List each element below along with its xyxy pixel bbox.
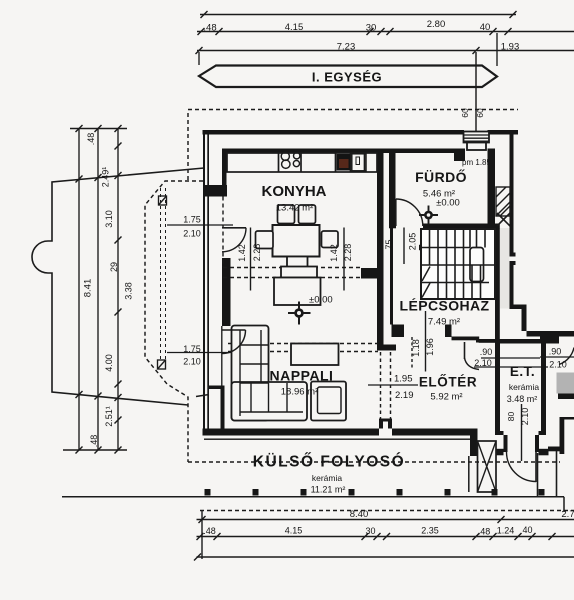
svg-text:.48: .48	[86, 133, 96, 146]
shaft gray strip	[500, 228, 510, 309]
outer wall left double line	[203, 130, 209, 436]
corridor bottom corner	[563, 497, 565, 512]
stair opening dim dashed	[411, 337, 413, 370]
east outer wall bar	[510, 134, 516, 305]
bottom dashed line	[200, 510, 574, 512]
kitchen east wall	[377, 149, 396, 351]
svg-text:2.10: 2.10	[520, 408, 530, 426]
svg-text:2.28: 2.28	[343, 244, 353, 262]
bottom dimension line 2	[197, 533, 574, 540]
svg-text:4.15: 4.15	[285, 22, 304, 33]
corridor ramp box with X	[478, 441, 497, 492]
svg-text:.48: .48	[478, 527, 491, 537]
svg-text:60: 60	[475, 108, 485, 118]
svg-text:2.49¹: 2.49¹	[101, 167, 111, 188]
svg-text:kerámia: kerámia	[509, 382, 540, 392]
svg-text:1.93: 1.93	[501, 42, 520, 53]
svg-text:kerámia: kerámia	[312, 473, 343, 483]
nappali door leaf	[222, 329, 246, 331]
svg-text:2.51¹: 2.51¹	[104, 406, 114, 427]
corridor dashed line	[188, 461, 560, 463]
corridor posts	[205, 489, 545, 496]
staircase treads lower	[438, 265, 481, 299]
left dim top terminator line	[70, 125, 127, 132]
svg-text:.48: .48	[89, 435, 99, 448]
south wall of nappali	[203, 429, 471, 436]
armchair	[311, 382, 346, 421]
top dimension line 1	[200, 11, 517, 18]
kitchen dashed overhang horizontals	[223, 268, 361, 278]
svg-text:2.35: 2.35	[421, 526, 439, 536]
stair east wall	[495, 228, 500, 341]
coffee table	[291, 344, 339, 366]
svg-text:7.49 m²: 7.49 m²	[428, 317, 460, 328]
gray block bottom wall	[558, 394, 574, 400]
nappali-eloter opening dashed jambs	[381, 352, 391, 419]
banner witness lines	[199, 33, 497, 66]
kitchen chair right	[322, 231, 339, 248]
svg-text:2.19: 2.19	[395, 390, 414, 401]
sofa L vertical part	[232, 326, 269, 421]
bottom dimension line 1	[197, 516, 574, 523]
chimney support chunk	[454, 153, 465, 161]
top dimension line 3	[196, 47, 574, 54]
left vertical dimension line A (8.41)	[78, 129, 80, 451]
svg-text:13.42 m²: 13.42 m²	[276, 203, 314, 214]
svg-text:1.75: 1.75	[183, 215, 201, 225]
window label 1.75/2.10 upper	[167, 215, 233, 239]
kitchen sideboard stack	[274, 257, 321, 306]
E.T. vertical dim line	[521, 404, 523, 461]
sink dark appliance	[337, 154, 351, 171]
svg-text:LÉPCSŐHÁZ: LÉPCSŐHÁZ	[400, 297, 490, 314]
svg-text:7.23: 7.23	[337, 42, 356, 53]
window label 1.75/2.10 lower	[167, 344, 236, 367]
left dim intermediate ticks	[76, 143, 122, 424]
svg-text:18.96 m²: 18.96 m²	[281, 387, 319, 398]
svg-text:.90: .90	[549, 347, 562, 357]
svg-text:40: 40	[480, 22, 491, 33]
nappali door arc	[222, 330, 246, 354]
svg-text:.48: .48	[203, 23, 216, 34]
right unit door arc	[559, 348, 574, 365]
kitchen counter	[227, 153, 377, 172]
chimney	[464, 132, 490, 151]
left vertical dimension line C (chain)	[117, 129, 119, 451]
armchair inner	[318, 387, 342, 414]
stove burners	[281, 152, 300, 168]
kitchen dashed overhang vertical	[222, 197, 224, 268]
stair south wall segments	[445, 325, 495, 343]
dashed property line top	[188, 109, 518, 111]
vertical witness line 60/60	[475, 52, 477, 132]
doorway bracket in south wall	[379, 419, 392, 429]
nappali window frame line	[221, 326, 223, 386]
left vertical dimension line B (.48/.48)	[97, 129, 99, 451]
door label shelf line long	[474, 366, 548, 368]
kitchen west inner wall	[205, 149, 227, 197]
svg-text:FÜRDŐ: FÜRDŐ	[415, 168, 467, 185]
svg-text:80: 80	[506, 412, 516, 422]
kitchen exterior door leaf	[222, 227, 246, 229]
kitchen chair left	[256, 231, 274, 249]
svg-text:2.10: 2.10	[549, 360, 567, 370]
svg-text:11.21 m²: 11.21 m²	[311, 485, 346, 495]
bottom dims left witness	[201, 511, 203, 560]
gray neighbor block	[557, 373, 574, 394]
svg-text:2.05: 2.05	[408, 233, 418, 251]
svg-text:.48: .48	[203, 526, 216, 536]
svg-text:±0.00: ±0.00	[309, 295, 333, 306]
E.T. extension jambs	[504, 435, 540, 452]
svg-text:8.40: 8.40	[350, 509, 369, 520]
svg-text:.90: .90	[480, 347, 493, 357]
svg-text:1.96: 1.96	[425, 338, 435, 356]
svg-text:pm 1.85: pm 1.85	[462, 158, 491, 167]
staircase treads upper	[430, 229, 486, 265]
bottom dim labels row 2	[203, 525, 532, 537]
E.T. exit door arc	[507, 452, 537, 482]
kitchen dim line left	[250, 228, 252, 291]
kitchen dim line right	[343, 228, 345, 291]
svg-text:KONYHA: KONYHA	[261, 183, 326, 200]
svg-text:3.38: 3.38	[124, 282, 134, 300]
svg-text:29: 29	[109, 262, 119, 272]
kitchen level symbol	[288, 302, 311, 325]
60 60 rotated labels	[460, 108, 485, 118]
svg-text:2.28: 2.28	[252, 244, 262, 262]
hatched wall block	[496, 187, 510, 216]
svg-text:ELŐTÉR: ELŐTÉR	[419, 375, 477, 390]
svg-text:3.10: 3.10	[104, 210, 114, 228]
corridor right passage lines	[538, 451, 557, 496]
svg-text:8.41: 8.41	[83, 279, 94, 298]
E.T. exit door leaf	[535, 452, 537, 482]
svg-text:5.92 m²: 5.92 m²	[430, 392, 462, 403]
appliance next to sink	[352, 154, 366, 171]
svg-text:4.15: 4.15	[285, 526, 303, 536]
kitchen west wall lower pieces	[209, 386, 225, 433]
eloter opening dim line	[368, 384, 418, 386]
X window mark below hatch	[497, 213, 510, 226]
svg-text:±0.00: ±0.00	[436, 198, 460, 209]
staircase break diagonals	[422, 267, 430, 298]
kitchen-nappali beam stub	[361, 268, 378, 279]
right corridor wall bar	[548, 417, 574, 454]
svg-text:1.42: 1.42	[329, 244, 339, 262]
corridor cell line	[468, 456, 470, 492]
svg-text:KÜLSŐ FOLYOSÓ: KÜLSŐ FOLYOSÓ	[253, 453, 405, 471]
corridor bottom edge line	[62, 496, 564, 498]
svg-text:NAPPALI: NAPPALI	[270, 368, 334, 384]
svg-text:4.00: 4.00	[104, 354, 114, 372]
bath east wall	[488, 149, 496, 228]
downpipe symbol bottom	[158, 360, 166, 369]
svg-text:2.10: 2.10	[183, 357, 201, 367]
east wall jog	[510, 305, 574, 337]
svg-text:3.48 m²: 3.48 m²	[507, 394, 538, 404]
bottom dimension line 3	[194, 554, 574, 561]
bath door leaf	[395, 199, 397, 226]
eloter north wall step	[476, 337, 479, 343]
stair width dim line	[403, 228, 405, 265]
svg-text:75: 75	[384, 239, 394, 249]
staircase flight lines	[421, 229, 495, 283]
sofa L horizontal part	[232, 382, 308, 421]
kitchen table	[273, 225, 320, 257]
south wall outer face line	[204, 439, 477, 440]
top dimension labels row 2	[337, 42, 520, 53]
downpipe symbol top	[159, 196, 167, 205]
nappali dashed beam lines	[228, 344, 378, 352]
stair dim arrow	[419, 245, 425, 251]
svg-text:1.24: 1.24	[497, 526, 515, 536]
eloter north door arc	[465, 358, 480, 370]
eloter north door leaf	[464, 342, 466, 359]
svg-text:30: 30	[366, 23, 377, 34]
outer wall top	[203, 130, 519, 135]
bath level symbol	[419, 206, 438, 225]
top dimension labels row 1	[203, 19, 490, 34]
dashed terrace outline	[145, 113, 203, 462]
staircase landing walkline	[470, 248, 484, 282]
svg-text:1.18: 1.18	[411, 339, 421, 357]
window sill tick lower left	[196, 395, 209, 397]
svg-text:2.80: 2.80	[427, 19, 446, 30]
bath west wall	[389, 153, 404, 337]
staircase outer box	[421, 229, 495, 299]
kitchen chairs top pair	[278, 205, 316, 224]
svg-text:1.75: 1.75	[183, 344, 201, 354]
svg-text:30: 30	[365, 526, 375, 536]
kitchen exterior door arc	[222, 228, 246, 252]
svg-text:2.10: 2.10	[183, 229, 201, 239]
sofa inner lines	[240, 330, 303, 416]
stair opening dim solid	[425, 311, 427, 372]
svg-text:E.T.: E.T.	[510, 364, 535, 379]
svg-text:1.42: 1.42	[237, 244, 247, 262]
left facade outline with bay	[32, 168, 204, 405]
E.T. room walls	[495, 339, 546, 435]
banner I. EGYSEG	[199, 66, 497, 88]
svg-text:I. EGYSÉG: I. EGYSÉG	[312, 70, 382, 85]
svg-text:2.7: 2.7	[561, 509, 574, 520]
bath south wall	[389, 224, 500, 229]
right unit door wall	[540, 337, 559, 344]
left dim bottom terminator line	[63, 447, 127, 454]
south lower wall segments	[470, 429, 549, 457]
svg-text:40: 40	[522, 525, 532, 535]
svg-text:60: 60	[460, 108, 470, 118]
svg-text:1.95: 1.95	[394, 374, 413, 385]
top dimension line 2 with tick marks	[197, 28, 574, 35]
double dashed awning lines	[161, 188, 166, 360]
kitchen west wall solid segment	[222, 258, 231, 326]
interior top wall	[222, 149, 495, 154]
kitchen rotated dims	[237, 244, 353, 262]
bath door arc	[396, 199, 423, 226]
